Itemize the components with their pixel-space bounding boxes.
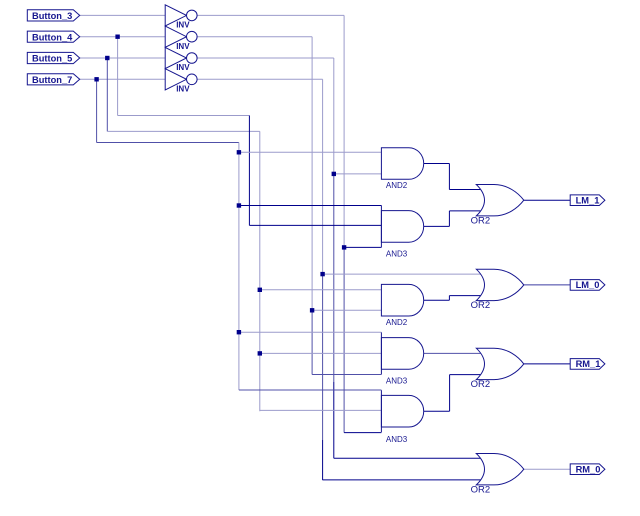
svg-text:OR2: OR2 — [471, 300, 491, 311]
svg-text:OR2: OR2 — [471, 379, 491, 390]
svg-text:RM_1: RM_1 — [576, 359, 601, 369]
svg-text:AND3: AND3 — [386, 435, 408, 444]
svg-text:Button_5: Button_5 — [32, 54, 72, 64]
svg-text:INV: INV — [176, 21, 190, 30]
svg-text:INV: INV — [176, 63, 190, 72]
svg-text:INV: INV — [176, 84, 190, 93]
svg-text:LM_0: LM_0 — [576, 280, 600, 290]
svg-text:INV: INV — [176, 42, 190, 51]
svg-text:AND3: AND3 — [386, 250, 408, 259]
svg-text:Button_4: Button_4 — [32, 32, 73, 42]
svg-text:OR2: OR2 — [471, 215, 491, 226]
svg-text:AND2: AND2 — [386, 318, 408, 327]
svg-text:AND2: AND2 — [386, 181, 408, 190]
svg-text:OR2: OR2 — [471, 484, 491, 495]
svg-text:Button_3: Button_3 — [32, 11, 72, 21]
svg-text:Button_7: Button_7 — [32, 75, 72, 85]
svg-text:RM_0: RM_0 — [576, 464, 601, 474]
svg-text:AND3: AND3 — [386, 376, 408, 385]
svg-text:LM_1: LM_1 — [576, 195, 600, 205]
